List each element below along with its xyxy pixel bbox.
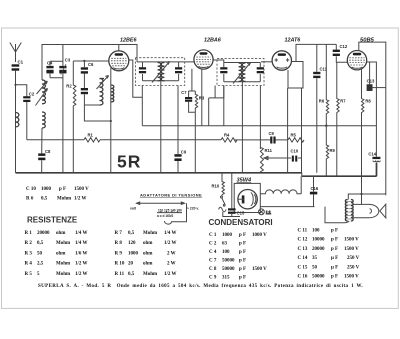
svg-text:C14: C14 <box>368 151 376 156</box>
potentiometer R11 <box>260 147 272 173</box>
wire 50B5 plate top <box>359 42 386 195</box>
capacitor C4 <box>46 61 53 78</box>
svg-text:R 60,5Mohm1/2 W: R 60,5Mohm1/2 W <box>26 197 87 202</box>
svg-text:R 55Mohm1/2 W: R 55Mohm1/2 W <box>25 272 88 277</box>
switch interruttore <box>221 195 226 206</box>
svg-text:C12: C12 <box>340 44 348 49</box>
chassis bus <box>16 172 303 174</box>
wire cathode bracket <box>189 69 196 173</box>
svg-text:C 1210000p F1500 V: C 1210000p F1500 V <box>298 238 360 243</box>
svg-text:12BA6: 12BA6 <box>204 38 222 44</box>
svg-text:12AT6: 12AT6 <box>285 38 302 44</box>
wire to C2 <box>16 85 27 96</box>
node line A junction <box>325 125 327 127</box>
capacitor C11 <box>313 44 327 172</box>
resistor R3 <box>195 91 205 112</box>
svg-text:R8: R8 <box>365 99 371 104</box>
IF transformer T2 box <box>217 59 264 86</box>
wire heater riser <box>300 176 302 194</box>
svg-text:C 263p F: C 263p F <box>209 242 246 247</box>
T1 bottom wire <box>143 80 179 82</box>
T2 tuning arrow <box>233 63 251 84</box>
wire T2 secondary bottom to chassis <box>241 82 243 173</box>
capacitor C12 <box>333 44 348 62</box>
coil antenna primary <box>16 113 19 127</box>
svg-text:C 11100p F: C 11100p F <box>298 229 339 234</box>
resistor R7 grid leak <box>337 62 346 176</box>
svg-text:R6: R6 <box>319 99 325 104</box>
svg-text:R5: R5 <box>291 133 297 138</box>
line A screen feed <box>142 125 376 127</box>
wire 12BE6 cathode line <box>110 68 112 173</box>
AVC line B <box>27 139 302 141</box>
AC mains symbol <box>219 207 227 212</box>
capacitor C5 padder <box>81 74 88 95</box>
wire 12BA6 cathode <box>201 69 203 126</box>
wire transformer bottom return <box>325 207 349 223</box>
svg-text:C 1435μ F250 V: C 1435μ F250 V <box>298 256 360 261</box>
pilot lamp L1 <box>259 209 272 215</box>
svg-text:C8: C8 <box>45 149 51 154</box>
capacitor C3 <box>59 45 71 78</box>
svg-text:C 750000p F: C 750000p F <box>209 259 246 264</box>
svg-text:C6: C6 <box>88 62 94 67</box>
svg-text:≈ 220 v.: ≈ 220 v. <box>187 207 199 211</box>
T1 right capacitor <box>175 62 182 81</box>
svg-text:R9: R9 <box>330 148 336 153</box>
coil L ant secondary <box>42 80 45 128</box>
wire lamp line <box>260 206 314 208</box>
svg-text:C15: C15 <box>237 210 245 215</box>
svg-text:35W4: 35W4 <box>237 177 253 183</box>
resistor table right column <box>115 231 177 277</box>
wire transformer top to B plus <box>348 194 386 200</box>
antenna <box>10 43 21 63</box>
svg-text:R10: R10 <box>212 184 220 189</box>
svg-text:volt: volt <box>130 207 137 211</box>
adattatore di tensione diagram <box>130 193 202 225</box>
svg-text:C13: C13 <box>367 79 375 84</box>
wire T1 cap bottom to AVC line A <box>141 86 143 126</box>
wire AGC return <box>287 88 289 173</box>
T2 left capacitor <box>220 63 227 82</box>
capacitor C14 electrolytic <box>368 126 380 177</box>
svg-text:C10: C10 <box>291 149 299 154</box>
wire 50B5 cathode R8 <box>361 69 363 98</box>
tuning arrow ant coil <box>36 89 48 106</box>
capacitor C5 series on AVC <box>269 131 276 143</box>
svg-text:C16: C16 <box>311 186 319 191</box>
wire 12AT6 plate out <box>288 62 303 89</box>
T2 coil windings <box>239 63 246 81</box>
capacitor C16 <box>310 176 319 206</box>
wire antenna line down <box>15 71 17 173</box>
svg-text:12BE6: 12BE6 <box>120 38 137 44</box>
R11 wiper arrow and C10 <box>264 149 302 162</box>
node ant junction <box>14 84 16 86</box>
resistor R6 <box>319 44 329 125</box>
svg-text:R 120000ohm1/4 W: R 120000ohm1/4 W <box>25 231 88 236</box>
resistor R2 <box>66 61 76 173</box>
tube 35W4 box <box>234 183 260 212</box>
svg-text:R4: R4 <box>224 133 230 138</box>
T1 tuning arrow <box>152 62 170 83</box>
wire T2 left cap to line A <box>223 86 225 126</box>
capacitor C1 <box>12 59 24 70</box>
svg-text:C 4100p F: C 4100p F <box>209 250 246 255</box>
T2 bottom wire <box>224 81 260 83</box>
wire mains to bottom <box>223 212 240 217</box>
T2 right capacitor <box>257 63 264 82</box>
wire C2 to AVC <box>26 102 28 140</box>
wire 12BA6 plate to T2 <box>213 60 224 63</box>
svg-text:C 11000p F1000 V: C 11000p F1000 V <box>209 233 267 238</box>
svg-text:C 101000p F1500 V: C 101000p F1500 V <box>26 187 89 192</box>
wire 12AT6 diode in <box>261 61 272 63</box>
wire T1 right cap line with C9 <box>177 86 179 173</box>
svg-text:R 8120ohm1/2 W: R 8120ohm1/2 W <box>115 241 177 246</box>
wire T2 return U <box>209 86 224 126</box>
wire diode return <box>301 88 303 173</box>
resistor R8 <box>362 99 372 205</box>
svg-text:C9: C9 <box>269 131 275 136</box>
wire T2 right cap to R11 <box>259 86 261 150</box>
svg-text:RESISTENZE: RESISTENZE <box>27 216 78 225</box>
condenser table left column <box>209 233 267 281</box>
T1 top wire <box>137 61 195 63</box>
svg-text:CONDENSATORI: CONDENSATORI <box>209 218 273 227</box>
speaker <box>353 204 386 218</box>
wire osc grid line <box>73 60 109 62</box>
resistor table left column <box>25 231 88 277</box>
svg-text:C 1320000p F1500 V: C 1320000p F1500 V <box>298 247 360 252</box>
T2 top wire <box>224 62 260 64</box>
wire 12AT6 plate riser to bus <box>296 44 336 61</box>
tube 12BE6 <box>109 38 138 71</box>
svg-text:C7: C7 <box>181 90 187 95</box>
capacitor C15 electrolytic <box>228 173 245 217</box>
condenser table right column <box>298 229 360 280</box>
resistor R9 <box>326 126 335 177</box>
tube 12BA6 <box>194 38 222 70</box>
tuning arrow osc coil <box>97 76 109 90</box>
svg-text:110 125 140 160: 110 125 140 160 <box>158 208 182 212</box>
svg-text:R 91000ohm2 W: R 91000ohm2 W <box>115 251 176 256</box>
wire top bus left <box>42 45 137 81</box>
wire T1 secondary bottom to chassis <box>160 81 162 173</box>
svg-text:R3: R3 <box>199 95 205 100</box>
svg-text:a o d 160/2: a o d 160/2 <box>157 214 174 218</box>
svg-text:C 1550μ F250 V: C 1550μ F250 V <box>298 265 360 270</box>
capacitor C6 <box>81 61 94 74</box>
svg-text:C 1650000p F1500 V: C 1650000p F1500 V <box>298 275 360 280</box>
T1 coil windings <box>158 62 165 81</box>
output transformer T3 <box>345 200 353 222</box>
oscillator coil L2 <box>100 79 105 106</box>
tuning arrow C3 C4 <box>37 64 67 94</box>
svg-text:C2: C2 <box>29 91 35 96</box>
heater choke <box>260 190 301 194</box>
capacitor C7 <box>181 90 195 112</box>
tube 12AT6 <box>272 38 301 71</box>
resistor R5 <box>288 133 304 142</box>
svg-text:5R: 5R <box>117 152 141 172</box>
svg-text:R 42,5Mohm1/2 W: R 42,5Mohm1/2 W <box>25 262 88 267</box>
svg-text:C9: C9 <box>181 150 187 155</box>
svg-text:R 20,5Mohm1/4 W: R 20,5Mohm1/4 W <box>25 241 88 246</box>
capacitor C9 <box>174 150 186 161</box>
tube 35W4 <box>237 177 258 209</box>
svg-text:ADATTATORE DI TENSIONE: ADATTATORE DI TENSIONE <box>140 193 202 198</box>
oscillator coil feedback winding <box>111 85 114 102</box>
capacitor C2 <box>23 91 35 102</box>
wire C4 C3 bottom bracket <box>50 61 63 173</box>
svg-text:C 850000p F1500 V: C 850000p F1500 V <box>209 267 267 272</box>
svg-text:R 110,5Mohm1/2 W: R 110,5Mohm1/2 W <box>115 272 177 277</box>
capacitor C13 <box>367 62 386 91</box>
capacitor C8 <box>38 149 51 160</box>
svg-text:SUPERLA S. A. - Mod. 5 R Onde: SUPERLA S. A. - Mod. 5 R Onde medie da 1… <box>38 284 363 289</box>
B minus bus right <box>302 163 377 177</box>
svg-text:C1: C1 <box>18 59 24 64</box>
bus step <box>301 173 303 176</box>
wire top bus to 12BE6 plate <box>129 60 143 97</box>
wire coil to C8 to bus <box>41 128 43 173</box>
resistor R4 <box>221 133 237 142</box>
svg-text:R 70,5Mohm1/4 W: R 70,5Mohm1/4 W <box>115 231 177 236</box>
wire padder down and across <box>84 94 110 121</box>
IF transformer T1 box <box>135 58 184 86</box>
T1 left capacitor <box>139 62 146 81</box>
svg-text:R7: R7 <box>340 99 346 104</box>
svg-text:C3: C3 <box>65 58 71 63</box>
svg-text:R2: R2 <box>66 84 72 89</box>
C10 R6 top rows <box>26 187 89 202</box>
svg-text:R 1020ohm2 W: R 1020ohm2 W <box>115 262 176 267</box>
tube 50B5 <box>347 38 374 70</box>
resistor R1 <box>84 133 100 142</box>
svg-text:R11: R11 <box>265 148 273 153</box>
wire 50B5 screen <box>367 62 377 126</box>
resistor R10 <box>212 173 225 195</box>
svg-text:R1: R1 <box>88 133 94 138</box>
svg-text:L1: L1 <box>266 210 272 215</box>
svg-text:R 350ohm1/6 W: R 350ohm1/6 W <box>25 251 88 256</box>
svg-text:C 9315p F: C 9315p F <box>209 276 246 281</box>
node <box>360 193 362 195</box>
